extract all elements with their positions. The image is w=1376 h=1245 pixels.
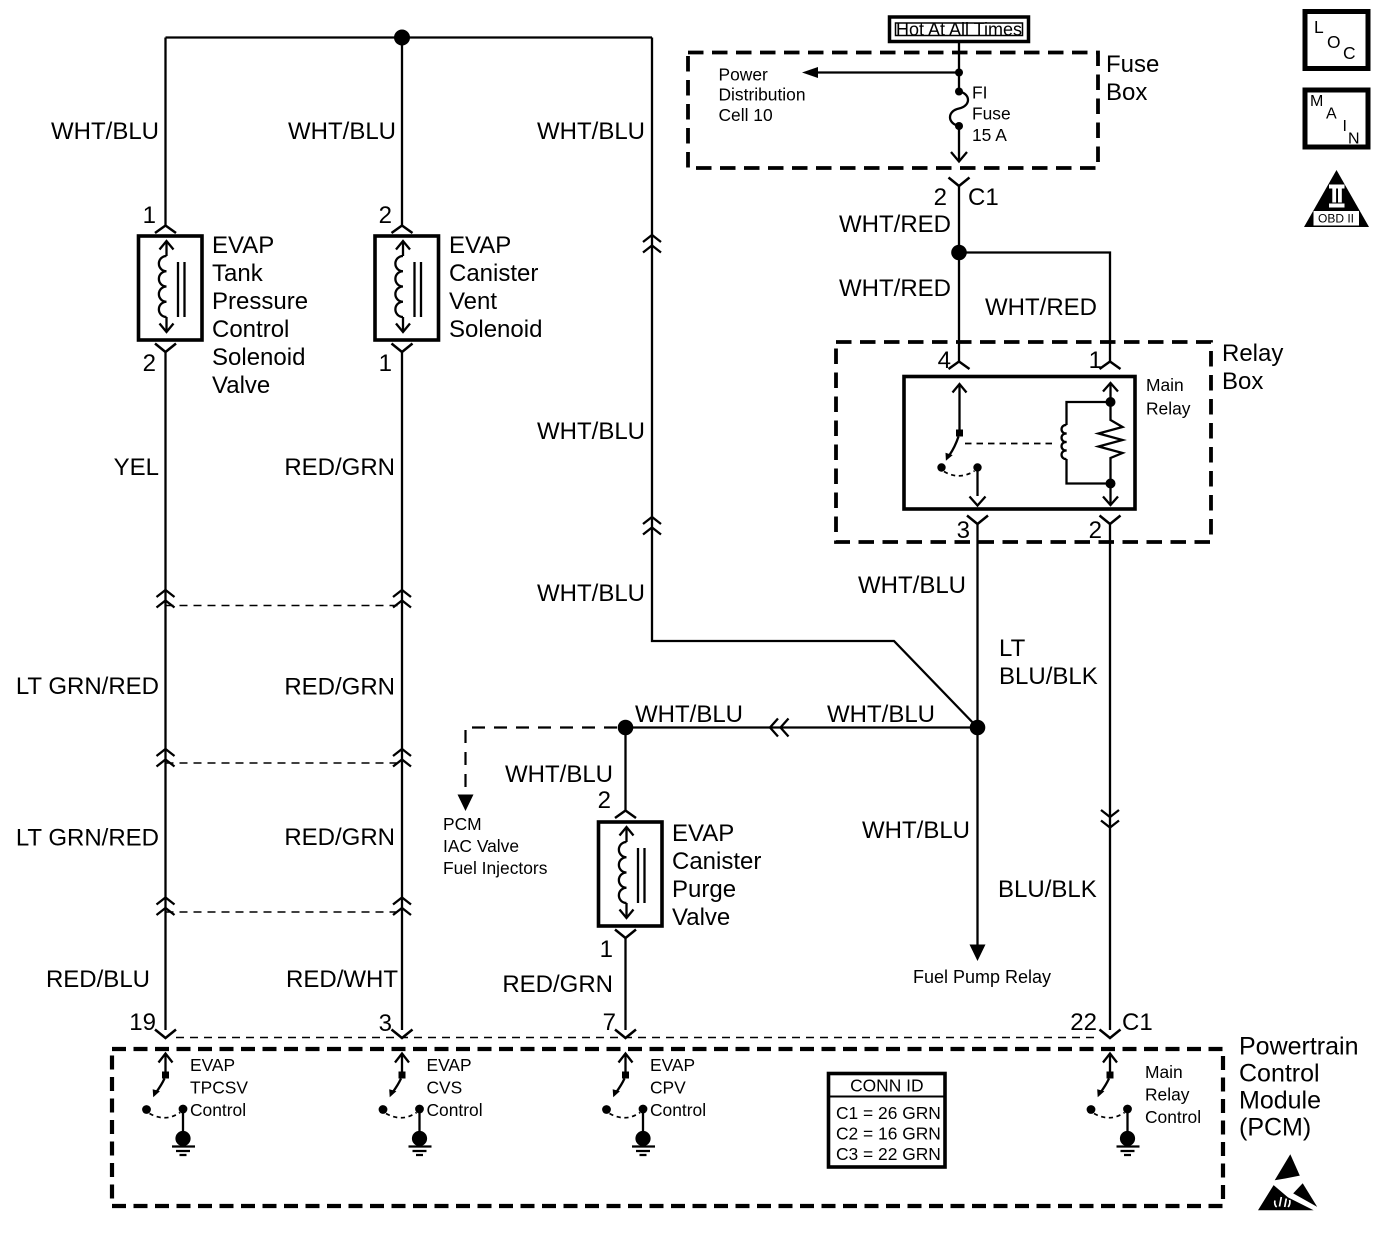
svg-text:EVAP: EVAP xyxy=(449,232,511,259)
svg-text:A: A xyxy=(1326,106,1337,123)
wire WHT/BLU feed from bus to splice xyxy=(652,38,978,728)
svg-text:Control: Control xyxy=(212,316,289,343)
svg-text:C3 = 22 GRN: C3 = 22 GRN xyxy=(836,1144,941,1164)
svg-text:4: 4 xyxy=(938,347,951,374)
connector fork PCM pin 22 xyxy=(1100,1030,1121,1039)
svg-text:Fuse: Fuse xyxy=(1106,51,1159,78)
wire CVS pin 1 to PCM pin 3 xyxy=(401,352,403,1030)
icon OBD II triangle xyxy=(1304,170,1369,227)
svg-text:Canister: Canister xyxy=(672,848,761,875)
svg-text:22: 22 xyxy=(1070,1009,1097,1036)
connector fork CVS pin 1 xyxy=(392,344,413,353)
svg-text:Purge: Purge xyxy=(672,876,736,903)
resistor R1 (coil suppression) xyxy=(1099,402,1123,484)
svg-text:2: 2 xyxy=(934,184,947,211)
module PCM boundary (dashed) xyxy=(112,1049,1223,1206)
table CONN ID xyxy=(829,1074,946,1168)
svg-text:Cell 10: Cell 10 xyxy=(719,105,773,125)
wire continuation marks horizontal xyxy=(770,719,789,737)
harness boundary dashed row 3 xyxy=(166,911,403,913)
svg-text:2: 2 xyxy=(143,350,156,377)
wire continuation marks W2 row 3 xyxy=(393,898,411,916)
fuse FI Fuse 15 A xyxy=(955,88,963,96)
svg-text:3: 3 xyxy=(379,1010,392,1037)
svg-text:WHT/RED: WHT/RED xyxy=(839,275,951,302)
svg-text:Fuel Injectors: Fuel Injectors xyxy=(443,858,548,878)
wire WHT/BLU to CPV pin 2 xyxy=(624,728,626,811)
wire relay contact to pin 3 arrow xyxy=(976,472,978,497)
wire coil node to pin 1 arrow xyxy=(1109,384,1111,402)
svg-text:EVAP: EVAP xyxy=(427,1055,472,1075)
connector fork PCM pin 19 xyxy=(155,1030,176,1039)
svg-text:Power: Power xyxy=(719,65,769,85)
svg-text:CONN ID: CONN ID xyxy=(850,1076,923,1096)
connector fork PCM pin 3 xyxy=(392,1030,413,1039)
svg-text:IAC Valve: IAC Valve xyxy=(443,836,519,856)
node Hot At All Times feed box xyxy=(890,17,1029,42)
svg-text:Control: Control xyxy=(1145,1107,1201,1127)
wire continuation marks W2 row 2 xyxy=(393,749,411,767)
svg-text:EVAP: EVAP xyxy=(212,232,274,259)
svg-text:Control: Control xyxy=(1239,1060,1320,1088)
junction WHT/BLU splice main xyxy=(970,720,986,736)
svg-text:Solenoid: Solenoid xyxy=(212,344,305,371)
wire fuse output arrow xyxy=(958,126,960,161)
arrow to Fuel Pump Relay xyxy=(970,945,986,962)
svg-text:C1 = 26 GRN: C1 = 26 GRN xyxy=(836,1103,941,1123)
relay switch contact (output) xyxy=(973,463,981,471)
svg-text:Pressure: Pressure xyxy=(212,288,308,315)
svg-text:Box: Box xyxy=(1222,368,1263,395)
svg-text:(PCM): (PCM) xyxy=(1239,1114,1311,1142)
svg-text:EVAP: EVAP xyxy=(650,1055,695,1075)
svg-text:WHT/BLU: WHT/BLU xyxy=(288,118,396,145)
wire WHT/BLU relay pin 3 to fuel pump relay xyxy=(976,524,978,945)
wire dashed branch to PCM IAC Valve Fuel Injectors xyxy=(466,728,618,796)
svg-text:WHT/BLU: WHT/BLU xyxy=(858,572,966,599)
svg-text:WHT/BLU: WHT/BLU xyxy=(51,118,159,145)
icon MAIN legend box xyxy=(1305,90,1368,148)
connector fork relay pin 2 xyxy=(1100,516,1121,525)
svg-text:C1: C1 xyxy=(1122,1009,1153,1036)
connector fork PCM pin 7 xyxy=(615,1030,636,1039)
connector chevron relay pin 4 xyxy=(949,362,970,370)
switch Main Relay Control driver with ground xyxy=(1087,1054,1140,1156)
junction fuse feed branch xyxy=(955,69,963,77)
switch EVAP TPCSV Control driver with ground xyxy=(142,1054,195,1156)
connector chevron relay pin 1 xyxy=(1100,362,1121,370)
wire continuation marks W3 lower xyxy=(643,517,661,535)
wire TPCSV pin 2 to PCM pin 19 xyxy=(164,352,166,1030)
svg-text:RED/GRN: RED/GRN xyxy=(284,824,395,851)
svg-text:Solenoid: Solenoid xyxy=(449,316,542,343)
svg-text:C2 = 16 GRN: C2 = 16 GRN xyxy=(836,1124,941,1144)
svg-text:WHT/BLU: WHT/BLU xyxy=(537,580,645,607)
wire arrow to Power Distribution Cell 10 xyxy=(812,71,959,73)
svg-text:1: 1 xyxy=(379,350,392,377)
switch EVAP CPV Control driver with ground xyxy=(602,1054,655,1156)
switch EVAP CVS Control driver with ground xyxy=(379,1054,432,1156)
connector fork CPV pin 1 xyxy=(615,930,636,939)
svg-text:2: 2 xyxy=(598,787,611,814)
relay contact linkage dashed xyxy=(944,471,975,476)
connector chevron CPV pin 2 xyxy=(615,811,636,819)
relay box boundary (dashed) xyxy=(836,342,1211,542)
svg-text:Powertrain: Powertrain xyxy=(1239,1033,1359,1061)
junction WHT/RED splice xyxy=(951,245,967,261)
relay switch common arrow (pin 4) xyxy=(953,384,967,393)
PCM connector row boundary dashed xyxy=(176,1037,1100,1039)
solenoid EVAP Tank Pressure Control Solenoid Valve xyxy=(139,236,203,340)
svg-text:LT GRN/RED: LT GRN/RED xyxy=(16,825,159,852)
harness boundary dashed row 2 xyxy=(166,762,403,764)
svg-text:19: 19 xyxy=(129,1009,156,1036)
junction coil top node xyxy=(1106,397,1116,407)
svg-text:Tank: Tank xyxy=(212,260,264,287)
svg-text:RED/GRN: RED/GRN xyxy=(284,674,395,701)
svg-text:M: M xyxy=(1310,93,1323,110)
svg-text:1: 1 xyxy=(1089,347,1102,374)
svg-text:1: 1 xyxy=(600,936,613,963)
connector fork fuse box pin 2 C1 xyxy=(949,178,970,187)
wire continuation marks W3 upper xyxy=(643,235,661,253)
svg-text:WHT/BLU: WHT/BLU xyxy=(827,701,935,728)
relay mechanical link dashed xyxy=(965,443,1052,445)
svg-text:PCM: PCM xyxy=(443,814,482,834)
wire continuation marks W1 row 3 xyxy=(157,898,175,916)
svg-text:Valve: Valve xyxy=(672,904,730,931)
svg-text:Box: Box xyxy=(1106,79,1147,106)
junction CPV branch splice xyxy=(618,720,634,736)
svg-text:BLU/BLK: BLU/BLK xyxy=(998,876,1097,903)
svg-text:EVAP: EVAP xyxy=(190,1055,235,1075)
icon ESD sensitive symbol xyxy=(1258,1154,1317,1210)
svg-text:C1: C1 xyxy=(968,184,999,211)
wire WHT/BLU splice bus horizontal xyxy=(626,726,978,728)
relay coil L1 xyxy=(1067,402,1111,425)
connector chevron TPCSV pin 1 xyxy=(155,226,176,234)
wire WHT/RED branch to relay pin 1 xyxy=(959,253,1110,363)
svg-text:EVAP: EVAP xyxy=(672,820,734,847)
svg-text:WHT/BLU: WHT/BLU xyxy=(862,817,970,844)
svg-text:Main: Main xyxy=(1146,375,1184,395)
svg-text:Canister: Canister xyxy=(449,260,538,287)
svg-text:WHT/RED: WHT/RED xyxy=(985,294,1097,321)
relay switch pivot xyxy=(956,430,963,437)
svg-text:7: 7 xyxy=(603,1009,616,1036)
relay switch contact (NO) xyxy=(937,463,945,471)
svg-text:RED/WHT: RED/WHT xyxy=(286,966,398,993)
svg-text:LT GRN/RED: LT GRN/RED xyxy=(16,673,159,700)
svg-text:Relay: Relay xyxy=(1145,1085,1190,1105)
relay switch movable arm xyxy=(950,437,959,456)
svg-text:Main: Main xyxy=(1145,1062,1183,1082)
svg-text:RED/GRN: RED/GRN xyxy=(284,454,395,481)
svg-text:CVS: CVS xyxy=(427,1078,463,1098)
svg-text:Control: Control xyxy=(190,1100,246,1120)
svg-text:L: L xyxy=(1314,17,1324,37)
fuse box boundary (dashed) xyxy=(688,53,1098,169)
svg-text:Vent: Vent xyxy=(449,288,497,315)
connector fork TPCSV pin 2 xyxy=(155,344,176,353)
svg-text:YEL: YEL xyxy=(114,454,159,481)
svg-text:1: 1 xyxy=(143,202,156,229)
wire hot feed into fuse box xyxy=(958,43,960,91)
svg-text:RED/BLU: RED/BLU xyxy=(46,966,150,993)
connector chevron CVS pin 2 xyxy=(392,226,413,234)
connector fork relay pin 3 xyxy=(967,516,988,525)
svg-text:O: O xyxy=(1327,32,1341,52)
svg-text:WHT/BLU: WHT/BLU xyxy=(635,701,743,728)
svg-text:RED/GRN: RED/GRN xyxy=(502,971,613,998)
svg-text:CPV: CPV xyxy=(650,1078,686,1098)
svg-text:WHT/BLU: WHT/BLU xyxy=(537,418,645,445)
svg-text:Hot At All Times: Hot At All Times xyxy=(896,20,1022,40)
wire continuation marks W1 row 2 xyxy=(157,749,175,767)
harness boundary dashed row 1 xyxy=(166,605,403,607)
wire RED/GRN CPV to PCM pin 7 xyxy=(624,938,626,1030)
svg-text:C: C xyxy=(1343,43,1356,63)
solenoid EVAP Canister Purge Valve xyxy=(599,822,663,926)
svg-text:Valve: Valve xyxy=(212,372,270,399)
wire continuation marks W2 row 1 xyxy=(393,590,411,608)
relay K1 Main Relay body xyxy=(904,377,1135,510)
wire WHT/BLU to CVS pin 2 xyxy=(401,38,403,226)
svg-text:15 A: 15 A xyxy=(972,125,1007,145)
wire top WHT/BLU bus xyxy=(166,36,653,38)
junction top bus splice xyxy=(394,30,410,46)
svg-text:WHT/RED: WHT/RED xyxy=(839,211,951,238)
svg-text:OBD II: OBD II xyxy=(1318,212,1354,226)
svg-text:WHT/BLU: WHT/BLU xyxy=(505,761,613,788)
svg-text:Control: Control xyxy=(427,1100,483,1120)
svg-text:FI: FI xyxy=(972,83,987,103)
svg-text:Distribution: Distribution xyxy=(719,85,806,105)
wire coil node to pin 2 arrow xyxy=(1109,484,1111,505)
svg-text:TPCSV: TPCSV xyxy=(190,1078,248,1098)
wire WHT/BLU to TPCSV pin 1 xyxy=(164,38,166,226)
svg-text:N: N xyxy=(1348,131,1360,148)
wire LT BLU/BLK relay pin 2 to PCM pin 22 xyxy=(1109,524,1111,1030)
svg-text:LT: LT xyxy=(999,635,1026,662)
svg-text:BLU/BLK: BLU/BLK xyxy=(999,663,1098,690)
svg-text:Fuse: Fuse xyxy=(972,104,1011,124)
svg-text:WHT/BLU: WHT/BLU xyxy=(537,118,645,145)
wire WHT/RED fuse to relay pin 4 xyxy=(958,186,960,362)
svg-text:Fuel Pump Relay: Fuel Pump Relay xyxy=(913,967,1051,987)
wire continuation marks W1 row 1 xyxy=(157,590,175,608)
icon LOC legend box xyxy=(1305,12,1368,69)
svg-text:Module: Module xyxy=(1239,1087,1321,1115)
svg-text:Control: Control xyxy=(650,1100,706,1120)
solenoid EVAP Canister Vent Solenoid xyxy=(375,236,439,340)
svg-text:Relay: Relay xyxy=(1146,399,1191,419)
svg-text:2: 2 xyxy=(1089,517,1102,544)
svg-text:2: 2 xyxy=(379,202,392,229)
svg-text:3: 3 xyxy=(957,517,970,544)
wire continuation marks W5 xyxy=(1101,810,1119,828)
svg-text:Relay: Relay xyxy=(1222,340,1283,367)
svg-text:I: I xyxy=(1343,118,1347,135)
junction coil bottom node xyxy=(1106,479,1116,489)
